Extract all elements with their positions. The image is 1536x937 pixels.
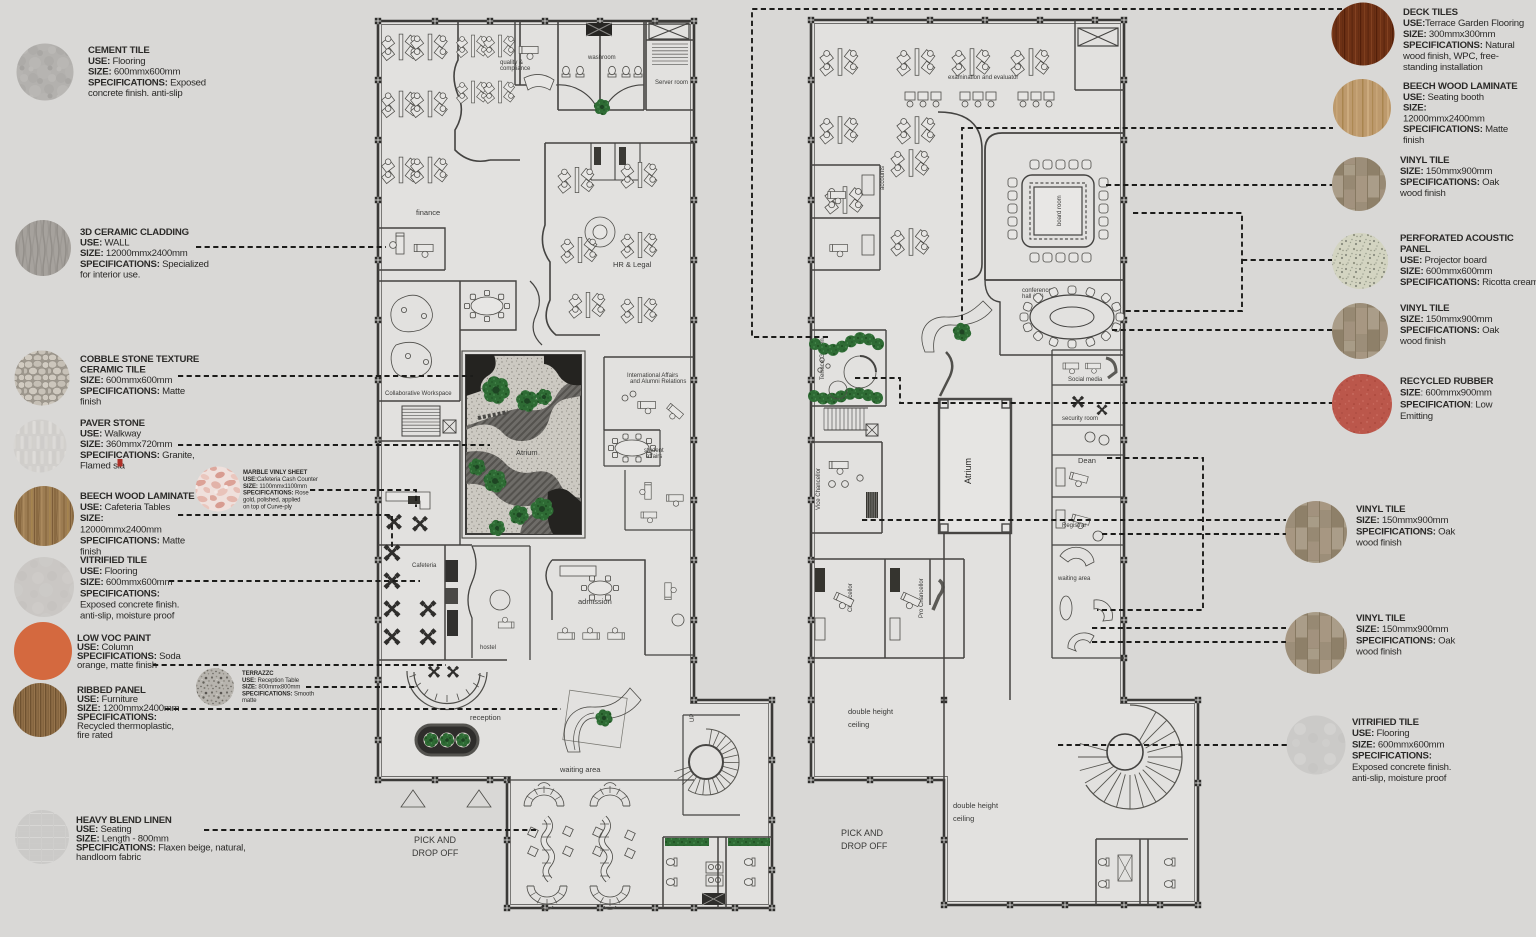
material swatch vinyl tile 4 (1285, 612, 1347, 674)
washroom walls (558, 21, 644, 110)
svg-text:affairs: affairs (646, 454, 662, 460)
green planter strips (665, 838, 709, 846)
reception desk oval (416, 725, 478, 755)
admission right desks (645, 560, 694, 655)
top right lift block (1075, 20, 1124, 90)
entry door arcs (556, 85, 644, 110)
svg-text:Atrium: Atrium (963, 458, 973, 484)
right plan outer walls (811, 20, 1198, 905)
leader vinyl tile 4 (1092, 628, 1286, 642)
right washrooms (1096, 839, 1188, 905)
washroom wing (663, 837, 772, 908)
svg-text:washroom: washroom (587, 55, 616, 61)
material swatch 3d ceramic cladding (15, 220, 71, 276)
material swatch cobble stone (15, 351, 70, 406)
board room walls (985, 133, 1124, 280)
svg-text:examination and evaluator: examination and evaluator (948, 75, 1018, 81)
vice chancellor room (811, 442, 882, 533)
leader perforated acoustic panel (1124, 213, 1332, 311)
leader 3d ceramic cladding (196, 246, 386, 248)
reception arc counter (407, 671, 487, 710)
svg-text:double height: double height (953, 801, 999, 810)
open office workstation clusters (382, 34, 419, 60)
board room chairs (1030, 160, 1039, 169)
small dots (820, 358, 824, 362)
red cursor square (118, 459, 123, 467)
atrium trees (482, 376, 510, 404)
conference hall walls (985, 280, 1124, 355)
international affairs room (604, 357, 694, 430)
material swatch vinyl tile 1 (1332, 157, 1386, 211)
waiting room sofas (1060, 547, 1094, 566)
leader vinyl tile 3 top (862, 519, 1286, 521)
HR and legal walls (542, 143, 694, 335)
leader cobble stone (178, 375, 473, 377)
svg-text:finance: finance (416, 208, 440, 217)
corridor curves (530, 281, 542, 345)
spiral stair (674, 714, 739, 795)
structural columns left plan (375, 18, 381, 24)
wall office divider curvy (454, 21, 490, 161)
plant entry (594, 99, 610, 115)
svg-text:Social media: Social media (1068, 377, 1103, 383)
ribbed booth (866, 492, 878, 518)
cafeteria walls (378, 545, 507, 660)
s curve sculpture bench (563, 690, 627, 748)
meeting oval 2 (604, 430, 660, 466)
svg-text:security room: security room (1062, 416, 1098, 422)
waiting sofas wavy (524, 783, 564, 806)
leader beech wood laminate (178, 515, 392, 549)
examination clusters (820, 49, 858, 76)
meeting room oval table (460, 281, 516, 330)
HR round sofa (585, 217, 615, 247)
striped booths (815, 568, 825, 592)
svg-text:DROP OFF: DROP OFF (412, 848, 459, 858)
leader terrazzo (306, 686, 417, 688)
svg-text:Pro Chancellor: Pro Chancellor (919, 578, 925, 618)
admission room (546, 560, 645, 655)
leader vinyl tile 2 (1112, 329, 1332, 331)
leader deck tiles (752, 9, 1342, 337)
svg-text:double height: double height (848, 707, 894, 716)
left plan outer walls (378, 21, 772, 908)
leader vitrified tile 2 (1058, 744, 1287, 746)
material swatch low voc paint (14, 622, 72, 680)
lone curved desk (524, 74, 554, 90)
material swatch beech wood laminate (14, 486, 74, 546)
terrace garden (811, 330, 886, 406)
finance office (378, 228, 445, 270)
left floor plan (375, 18, 775, 911)
leader vitrified tile (169, 580, 420, 582)
svg-text:Collaborative Workspace: Collaborative Workspace (385, 391, 452, 397)
cafeteria tables (383, 544, 400, 561)
atrium pebble row (478, 412, 508, 418)
pick and drop triangles (401, 790, 425, 807)
svg-text:accounts: accounts (880, 166, 886, 190)
stairs below garden (823, 408, 825, 430)
hostel room (468, 546, 530, 660)
leader vinyl tile 3 bracket (1097, 458, 1203, 610)
atrium winding paths (466, 378, 581, 441)
leader heavy blend linen (204, 829, 537, 831)
top middle office (519, 46, 538, 59)
collaborative workspace (378, 281, 460, 401)
student affairs (625, 470, 694, 530)
atrium dark blobs (466, 355, 496, 396)
HR desks (558, 167, 594, 193)
atrium courtyard frame (462, 351, 585, 538)
material swatch vinyl tile 3 (1285, 501, 1347, 563)
material swatch recycled rubber (1332, 374, 1392, 434)
material swatch cement tile (17, 44, 74, 101)
leader low voc paint (153, 664, 446, 666)
material swatch perforated acoustic panel (1332, 233, 1388, 289)
svg-text:DROP OFF: DROP OFF (841, 841, 888, 851)
leader marble vinyl sheet (310, 490, 416, 507)
svg-text:Vice Chancellor: Vice Chancellor (816, 468, 822, 510)
svg-text:hostel: hostel (480, 645, 496, 651)
right floor plan (808, 17, 1201, 908)
svg-text:Server room: Server room (655, 80, 688, 86)
leader vinyl tile 1 (1106, 184, 1332, 186)
quality compliance clusters (457, 35, 488, 57)
material swatch beech wood laminate 2 (1333, 79, 1391, 137)
structural columns right plan (808, 17, 814, 23)
stair room walls (683, 715, 740, 815)
svg-text:Atrium: Atrium (516, 448, 538, 457)
material swatch paver stone (14, 420, 67, 473)
right plan atrium (939, 399, 1011, 533)
wall quality room (490, 21, 520, 160)
svg-text:and Alumni Relations: and Alumni Relations (630, 379, 686, 385)
garden scallop bushes (809, 338, 821, 350)
svg-text:HR & Legal: HR & Legal (613, 260, 652, 269)
accounts clusters (891, 150, 929, 177)
leader vinyl tile 3 bottom (1102, 533, 1286, 535)
offices left (811, 165, 880, 270)
svg-text:waiting area: waiting area (1057, 576, 1091, 582)
leader ribbed panel (165, 708, 561, 710)
svg-text:compliance: compliance (500, 66, 531, 72)
bottom left wall detail (507, 779, 694, 781)
svg-text:reception: reception (470, 713, 501, 722)
leader beech wood laminate 2 (962, 128, 1333, 320)
material swatch terrazzo (196, 668, 234, 706)
chancellor rooms (811, 559, 964, 658)
material swatch vitrified tile 2 (1287, 716, 1346, 775)
accounts area walls (938, 112, 982, 280)
conference table (1030, 295, 1114, 339)
left plan floor slab (378, 21, 772, 908)
material swatch vinyl tile 2 (1332, 303, 1388, 359)
marble cash counter (386, 492, 430, 509)
server room stair block (646, 21, 694, 110)
svg-text:ceiling: ceiling (953, 814, 974, 823)
material swatch marble vinyl sheet (196, 467, 241, 512)
cash counter area (378, 441, 460, 545)
desk rows (905, 92, 941, 107)
svg-text:Dean: Dean (1078, 456, 1096, 465)
kitchen counters dark (445, 560, 458, 582)
washroom fixtures (562, 66, 570, 77)
wall office top middle (515, 21, 545, 85)
material swatch deck tiles (1332, 3, 1395, 66)
leader paver stone (178, 444, 490, 446)
material swatch heavy blend linen (15, 810, 69, 864)
board room table (1022, 175, 1094, 247)
right plan spiral stair (1078, 705, 1182, 809)
small tables near counter (386, 514, 402, 530)
garden spiral seats (844, 356, 876, 388)
svg-text:Cafeteria: Cafeteria (412, 563, 437, 569)
svg-text:ceiling: ceiling (848, 720, 869, 729)
stair below collaborative (402, 405, 440, 407)
sculpture lounge (922, 301, 992, 352)
right rooms column (1052, 350, 1124, 658)
leader recycled rubber (855, 378, 1332, 403)
svg-text:PICK AND: PICK AND (841, 828, 884, 838)
material swatch vitrified tile (14, 557, 74, 617)
svg-text:PICK AND: PICK AND (414, 835, 457, 845)
material swatch ribbed panel (13, 683, 67, 737)
double height shaft walls (944, 533, 1010, 780)
right plan floor slab (811, 20, 1198, 905)
svg-text:board room: board room (1057, 195, 1063, 226)
svg-text:Registrar: Registrar (1062, 523, 1086, 529)
svg-text:waiting area: waiting area (559, 765, 601, 774)
